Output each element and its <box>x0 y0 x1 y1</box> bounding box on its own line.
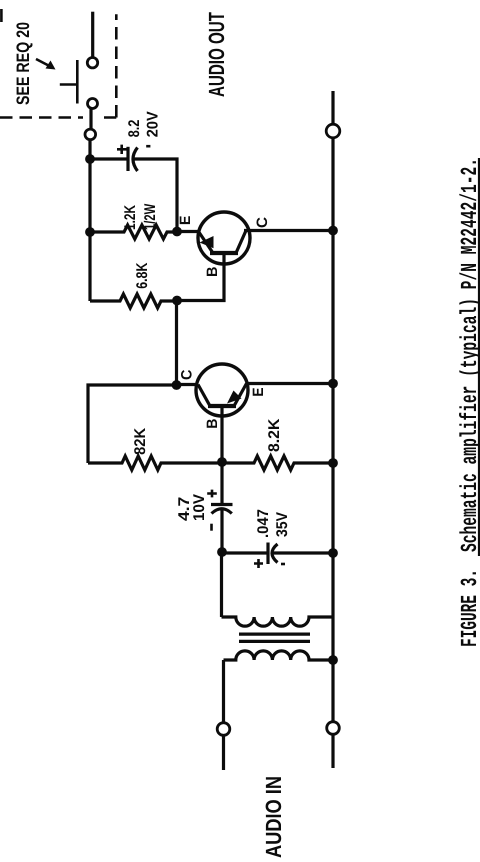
connector circle P2 switch contact <box>88 99 98 109</box>
caption title underlined <box>459 161 480 551</box>
caption underline <box>478 158 480 556</box>
node dot C3 on rail <box>328 548 338 558</box>
switch arm tick <box>60 83 78 86</box>
wire P1-P2 link <box>89 109 92 129</box>
node dot Q2 collector C <box>172 380 182 390</box>
resistor 6.8K <box>90 294 177 308</box>
label Q2 B <box>207 419 217 428</box>
capacitor C1 minus sign <box>146 145 150 148</box>
label Q2 C <box>181 370 192 379</box>
connector circle P1 <box>85 129 96 140</box>
capacitor C3 curved plate <box>272 544 278 563</box>
wire B+ top rail <box>88 140 91 301</box>
transistor Q1 body circle <box>198 212 250 264</box>
wire switch stub <box>91 12 94 58</box>
label Q2 E <box>253 388 263 396</box>
capacitor C2 minus sign <box>210 524 213 531</box>
label C3 rating 35V <box>276 512 287 537</box>
capacitor C2 plus sign <box>207 490 217 498</box>
terminal circle AUDIO OUT <box>326 124 340 138</box>
dashed boundary horizontal <box>115 14 118 117</box>
label 1.2K value <box>124 205 135 229</box>
transformer T1 secondary winding <box>224 651 334 660</box>
wire Q2 emitter to common rail <box>246 382 333 385</box>
label Q1 B <box>207 267 217 276</box>
wire Q2 base lead <box>220 406 223 462</box>
transformer T1 core line 2 <box>239 640 310 643</box>
terminal circle AUDIO IN hot <box>217 723 230 736</box>
node dot Q2 base <box>217 457 227 467</box>
transistor Q2 emitter diagonal <box>234 384 247 407</box>
label AUDIO IN <box>266 777 282 857</box>
capacitor C1 straight plate <box>126 147 129 171</box>
transistor Q2 base bar <box>208 404 236 408</box>
wire AUDIO IN lower stub <box>331 734 334 768</box>
terminal circle AUDIO IN common <box>327 722 340 735</box>
arrow to switch head <box>46 61 56 70</box>
label C1 value 8.2 <box>128 120 139 137</box>
node dot rail/1.2K <box>85 227 95 237</box>
node dot Q1 collector on rail <box>328 226 338 236</box>
capacitor C2 wire right <box>220 462 223 505</box>
label AUDIO OUT <box>209 12 225 96</box>
wire AUDIO IN upper stub <box>222 735 225 770</box>
capacitor C1 wire bottom to E node <box>133 159 177 232</box>
wire Q1 emitter lead <box>177 230 199 233</box>
transformer T1 primary winding <box>222 617 334 626</box>
switch movable arm <box>76 60 79 104</box>
label Q1 C <box>257 217 268 227</box>
arrow to switch tail <box>36 59 49 66</box>
capacitor C2 curved plate <box>212 509 232 514</box>
label C2 rating 10V <box>193 494 204 520</box>
transistor Q1 emitter arrow <box>200 236 214 248</box>
wire feedback C-to-82K <box>88 385 177 463</box>
dashed boundary top edge dash <box>0 9 3 22</box>
capacitor C3 plus sign <box>254 559 263 568</box>
transistor Q2 collector diagonal <box>198 385 210 407</box>
label C3 value .047 <box>257 510 268 537</box>
wire primary lead <box>220 552 223 617</box>
connector circle P3 switch contact <box>87 58 97 68</box>
capacitor C3 wire top <box>222 551 268 554</box>
capacitor C1 curved plate <box>133 148 138 172</box>
capacitor C1 wire top <box>90 157 128 160</box>
capacitor C3 straight plate <box>266 543 269 565</box>
transistor Q1 base bar <box>210 251 238 255</box>
node dot Q1 emitter E <box>172 227 182 237</box>
capacitor C2 wire left <box>220 510 223 552</box>
node dot C2/C3/primary <box>217 547 227 557</box>
transistor Q1 collector diagonal <box>236 231 246 254</box>
label 82K value <box>134 428 145 454</box>
label 6.8K value <box>136 263 147 289</box>
caption FIGURE 3. <box>461 572 477 646</box>
transformer T1 core line 1 <box>239 632 310 635</box>
wire interstage Q2.C to Q1.B <box>175 301 178 386</box>
wire Q2 collector lead <box>177 383 199 386</box>
capacitor C3 wire bottom <box>272 551 333 554</box>
capacitor C2 straight plate <box>211 503 233 506</box>
transistor Q2 body circle <box>196 364 248 416</box>
capacitor C1 plus sign <box>117 145 127 154</box>
label 1/2W rating <box>144 204 156 230</box>
wire Q1 collector to common rail <box>244 229 333 232</box>
wire secondary lead to AUDIO IN terminal <box>222 660 225 723</box>
transistor Q2 emitter arrow <box>227 391 242 404</box>
node dot secondary on rail <box>328 655 338 665</box>
node dot Q2 emitter on rail <box>328 379 338 389</box>
node dot 8.2K on rail <box>328 458 338 468</box>
resistor 1.2K 1/2W <box>90 225 177 239</box>
wire Q1 base L-path <box>177 253 224 301</box>
wire AUDIO OUT stub <box>331 91 334 124</box>
dashed boundary vertical <box>0 116 116 119</box>
label 8.2K value <box>268 419 279 452</box>
label Q1 E <box>180 216 190 224</box>
wire common ground rail <box>331 138 334 722</box>
label C2 value 4.7 <box>178 498 189 521</box>
label SEE REQ 20 <box>16 23 32 105</box>
node dot rail/C1 <box>85 154 95 164</box>
node dot Q1 base <box>172 296 182 306</box>
transistor Q1 emitter diagonal <box>199 232 214 254</box>
label C1 rating 20V <box>147 111 158 136</box>
resistor 82K <box>88 456 222 470</box>
resistor 8.2K <box>222 456 333 470</box>
capacitor C3 minus sign <box>281 563 285 566</box>
